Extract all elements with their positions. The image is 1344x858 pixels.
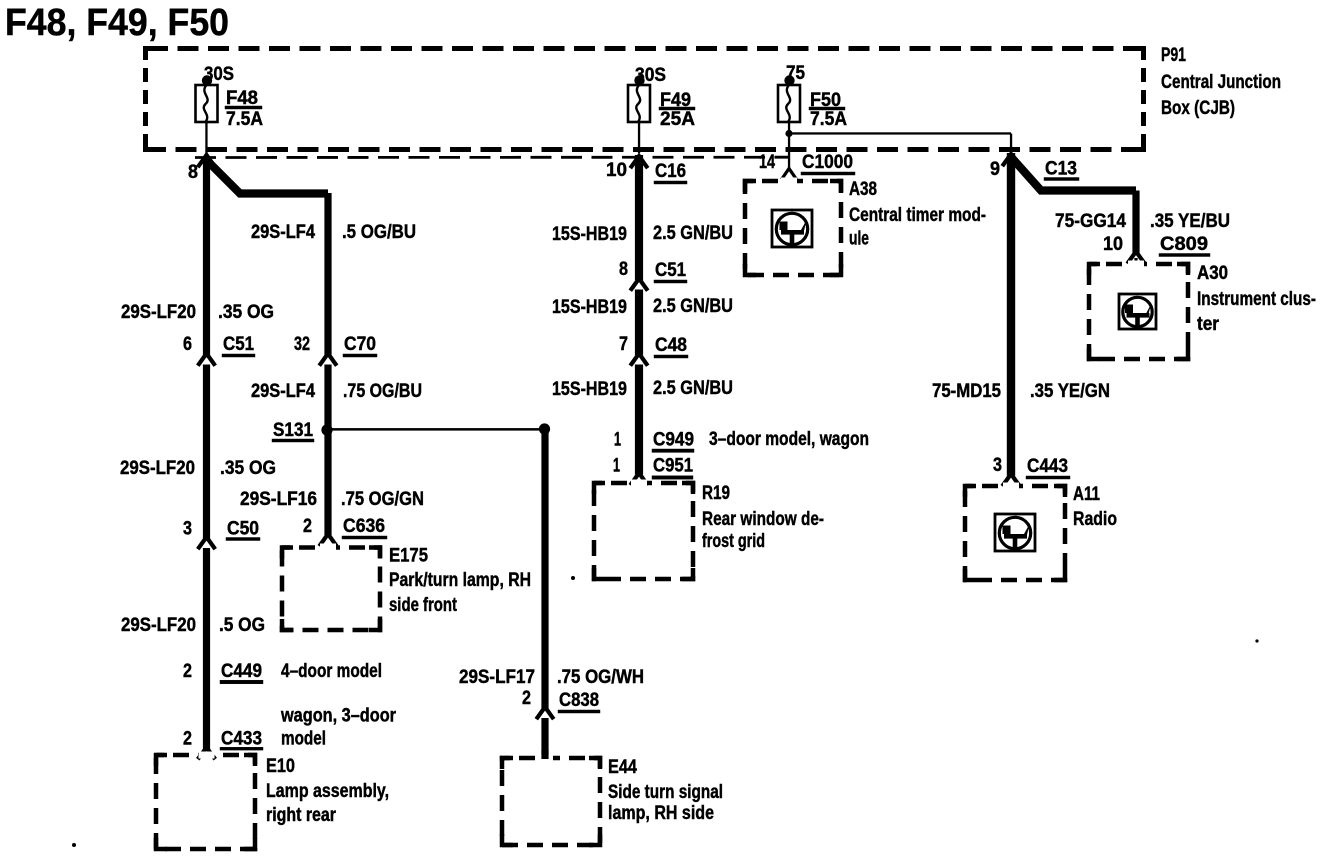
svg-text:.75 OG/WH: .75 OG/WH (557, 667, 644, 688)
svg-text:.35 OG: .35 OG (218, 302, 274, 323)
svg-text:6: 6 (183, 334, 192, 355)
svg-text:29S-LF20: 29S-LF20 (121, 302, 196, 323)
svg-text:Central timer mod-: Central timer mod- (849, 205, 986, 226)
svg-text:8: 8 (619, 259, 628, 280)
svg-text:C51: C51 (223, 334, 254, 355)
svg-text:7.5A: 7.5A (226, 109, 263, 130)
svg-text:25A: 25A (660, 109, 695, 130)
svg-text:32: 32 (294, 334, 310, 355)
svg-text:4–door model: 4–door model (281, 661, 382, 682)
svg-text:C48: C48 (655, 335, 687, 356)
svg-text:Rear window de-: Rear window de- (702, 509, 824, 530)
svg-text:wagon, 3–door: wagon, 3–door (280, 706, 396, 727)
svg-text:.35 OG: .35 OG (220, 458, 276, 479)
svg-text:E10: E10 (266, 756, 295, 777)
svg-text:model: model (281, 729, 326, 750)
svg-text:lamp, RH side: lamp, RH side (608, 803, 714, 824)
svg-text:Park/turn lamp, RH: Park/turn lamp, RH (389, 570, 531, 591)
svg-text:E175: E175 (389, 546, 428, 567)
svg-text:right rear: right rear (266, 805, 337, 826)
svg-text:29S-LF20: 29S-LF20 (121, 615, 196, 636)
svg-text:30S: 30S (204, 64, 234, 85)
svg-text:10: 10 (1103, 234, 1123, 255)
svg-text:C951: C951 (653, 456, 693, 477)
svg-text:.75 OG/BU: .75 OG/BU (343, 381, 422, 402)
svg-text:C809: C809 (1160, 234, 1208, 255)
svg-text:8: 8 (188, 162, 198, 183)
svg-text:2: 2 (183, 661, 192, 682)
svg-text:29S-LF4: 29S-LF4 (251, 222, 315, 243)
svg-text:1: 1 (613, 456, 620, 477)
svg-text:3: 3 (183, 519, 192, 540)
svg-text:A30: A30 (1197, 263, 1228, 284)
svg-text:29S-LF20: 29S-LF20 (120, 458, 195, 479)
svg-text:2: 2 (522, 688, 531, 709)
svg-text:1: 1 (614, 430, 621, 451)
svg-text:75-GG14: 75-GG14 (1055, 211, 1126, 232)
svg-text:C449: C449 (221, 661, 262, 682)
svg-text:2: 2 (183, 729, 192, 750)
svg-text:C1000: C1000 (802, 152, 853, 173)
svg-text:E44: E44 (608, 757, 637, 778)
svg-text:Central Junction: Central Junction (1161, 72, 1281, 93)
svg-text:15S-HB19: 15S-HB19 (552, 297, 627, 318)
svg-text:ule: ule (849, 229, 869, 250)
svg-text:29S-LF16: 29S-LF16 (240, 489, 317, 510)
svg-text:C636: C636 (343, 516, 385, 537)
svg-text:C433: C433 (221, 729, 262, 750)
svg-text:C838: C838 (559, 690, 599, 711)
svg-text:3–door model, wagon: 3–door model, wagon (709, 429, 869, 450)
svg-text:2.5 GN/BU: 2.5 GN/BU (653, 378, 733, 399)
svg-text:7.5A: 7.5A (810, 109, 847, 130)
svg-text:C70: C70 (344, 334, 376, 355)
svg-text:75-MD15: 75-MD15 (932, 381, 1001, 402)
svg-text:side front: side front (389, 595, 458, 616)
svg-text:Side turn signal: Side turn signal (608, 782, 723, 803)
svg-text:Box (CJB): Box (CJB) (1161, 98, 1235, 119)
svg-text:14: 14 (759, 152, 775, 173)
svg-text:.35 YE/BU: .35 YE/BU (1150, 211, 1230, 232)
svg-text:75: 75 (786, 63, 805, 84)
svg-text:C949: C949 (653, 430, 694, 451)
svg-text:30S: 30S (635, 65, 666, 86)
svg-text:Instrument clus-: Instrument clus- (1197, 289, 1316, 310)
svg-text:10: 10 (606, 160, 627, 181)
svg-text:.75 OG/GN: .75 OG/GN (341, 489, 424, 510)
svg-text:R19: R19 (702, 483, 730, 504)
svg-text:2.5 GN/BU: 2.5 GN/BU (653, 296, 733, 317)
svg-text:C50: C50 (227, 519, 259, 540)
svg-text:A38: A38 (849, 179, 877, 200)
svg-text:.35 YE/GN: .35 YE/GN (1030, 381, 1110, 402)
svg-text:P91: P91 (1161, 45, 1186, 66)
svg-text:.5 OG/BU: .5 OG/BU (342, 222, 416, 243)
svg-text:2.5 GN/BU: 2.5 GN/BU (653, 223, 733, 244)
svg-text:C443: C443 (1027, 456, 1068, 477)
svg-text:Lamp assembly,: Lamp assembly, (266, 781, 389, 802)
svg-text:ter: ter (1197, 314, 1220, 335)
svg-text:.5 OG: .5 OG (219, 615, 265, 636)
svg-text:frost grid: frost grid (702, 531, 765, 552)
svg-text:Radio: Radio (1073, 509, 1117, 530)
svg-text:3: 3 (993, 455, 1002, 476)
svg-text:C13: C13 (1045, 159, 1077, 180)
svg-text:15S-HB19: 15S-HB19 (552, 379, 627, 400)
svg-text:29S-LF17: 29S-LF17 (459, 667, 535, 688)
svg-text:A11: A11 (1073, 484, 1100, 505)
svg-text:7: 7 (619, 334, 628, 355)
svg-text:C51: C51 (655, 260, 686, 281)
svg-text:F48, F49, F50: F48, F49, F50 (5, 2, 229, 44)
svg-text:15S-HB19: 15S-HB19 (552, 224, 627, 245)
svg-text:S131: S131 (273, 420, 313, 441)
svg-text:29S-LF4: 29S-LF4 (251, 381, 315, 402)
svg-text:C16: C16 (655, 161, 686, 182)
svg-text:9: 9 (990, 159, 1000, 180)
svg-text:2: 2 (303, 516, 312, 537)
